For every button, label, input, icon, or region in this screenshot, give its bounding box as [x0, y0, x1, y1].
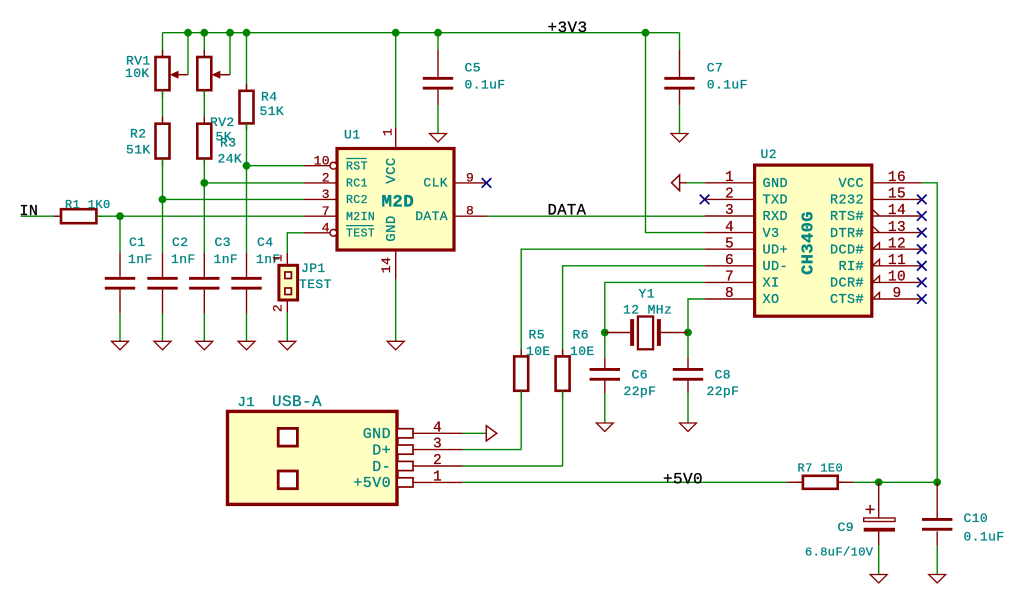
pin name U2 DCD#: [830, 243, 864, 258]
svg-text:D-: D-: [372, 459, 391, 476]
pin number J1 1: [433, 469, 442, 485]
junction RV2 wiper on rail: [226, 29, 234, 37]
pin name U2 DTR#: [830, 227, 864, 242]
svg-text:CLK: CLK: [423, 176, 448, 191]
pin lead C5 bottom: [437, 90, 439, 106]
no-connect U2 pin 12: [917, 244, 927, 254]
no-connect U1 CLK: [482, 178, 492, 188]
label U1 reference: [344, 128, 360, 143]
label C9 value: [805, 546, 874, 560]
svg-text:C5: C5: [465, 61, 481, 76]
svg-text:C8: C8: [715, 367, 731, 382]
wire R3 bottom to C3 column: [203, 159, 205, 254]
svg-text:14: 14: [888, 203, 906, 219]
wire RV2 wiper to rail: [229, 33, 231, 75]
wire C2 to ground: [162, 313, 164, 341]
svg-text:R7 1E0: R7 1E0: [798, 462, 844, 476]
svg-text:M2D: M2D: [382, 192, 415, 212]
svg-text:C6: C6: [632, 367, 648, 382]
pin number J1 2: [433, 453, 442, 469]
pin lead C1 bottom: [119, 290, 121, 313]
label R6: [573, 327, 589, 342]
wire C6 to ground: [604, 393, 606, 423]
wire TEST net: [287, 233, 304, 253]
wire R4 bottom to C4 column: [246, 123, 248, 253]
op-amp U1 body: [337, 149, 454, 251]
svg-text:TEST: TEST: [299, 277, 332, 292]
svg-text:DTR#: DTR#: [830, 227, 864, 242]
no-connect U2 pin 11: [917, 261, 927, 271]
svg-text:TEST: TEST: [346, 228, 375, 241]
svg-text:IN: IN: [20, 203, 39, 220]
svg-text:1: 1: [271, 254, 286, 262]
pin number J1 4: [433, 420, 442, 436]
potentiometer RV2 body: [197, 50, 211, 97]
pin lead U2 XI: [705, 281, 755, 283]
pin number U2 1: [725, 170, 734, 186]
resistor R4: [240, 84, 254, 131]
pin lead C6 top: [604, 358, 606, 368]
svg-text:R3: R3: [220, 136, 236, 151]
pin number U2 12: [888, 236, 906, 252]
svg-text:12 MHz: 12 MHz: [623, 302, 672, 317]
wire R5 to D+: [520, 391, 522, 450]
pin name U2 UD-: [763, 260, 789, 275]
pin number U1 1: [381, 128, 396, 136]
pin lead U2 GND: [705, 182, 755, 184]
output-low flag U2 DCR#: [873, 276, 880, 283]
label net +3V3: [548, 19, 588, 37]
pin lead U2 DCD#: [872, 248, 922, 250]
label C7 value: [707, 78, 748, 93]
pin lead C7 bottom: [679, 90, 681, 106]
pin number J1 3: [433, 437, 442, 453]
svg-text:VCC: VCC: [384, 157, 400, 183]
pin lead C10 bottom: [936, 531, 938, 545]
pin lead C2 top: [162, 253, 164, 277]
ground below C5: [430, 134, 447, 143]
pin lead C4 top: [246, 253, 248, 277]
pin name U1 M2IN: [346, 211, 375, 224]
pin number U1 3: [322, 187, 330, 202]
pin number U2 7: [725, 270, 734, 286]
junction crystal right: [684, 329, 692, 337]
label U1 value M2D: [382, 192, 415, 212]
wire rail to R4 top: [246, 33, 248, 91]
potentiometer RV1 body: [156, 50, 170, 97]
label R1 value: [65, 198, 111, 212]
wire C8 to ground: [687, 393, 689, 423]
wire C1 column: [119, 216, 121, 253]
open arrow J1 GND: [486, 426, 497, 441]
no-connect U2 pin 10: [917, 278, 927, 288]
pin name U2 VCC: [838, 177, 864, 192]
pin name U1 DATA: [415, 209, 448, 224]
label C6: [632, 367, 648, 382]
label R7 value: [798, 462, 844, 476]
svg-text:8: 8: [725, 286, 734, 302]
svg-text:6.8uF/10V: 6.8uF/10V: [805, 546, 874, 560]
pin lead C3 bottom: [203, 290, 205, 313]
pin number U2 2: [725, 187, 734, 203]
pin lead U2 R232: [872, 198, 922, 200]
pin number U2 4: [725, 220, 734, 236]
svg-text:D+: D+: [372, 442, 391, 459]
svg-text:22pF: 22pF: [707, 384, 740, 399]
ground below C2: [154, 341, 171, 350]
ground below C10: [929, 575, 946, 584]
label C2 value 1nF: [171, 252, 196, 267]
capacitor C5: [423, 77, 453, 90]
resistor R7: [796, 476, 845, 489]
wire J1 GND stub: [463, 432, 487, 434]
ground below C1: [112, 341, 129, 350]
pin lead U2 XO: [705, 298, 755, 300]
svg-text:2: 2: [322, 171, 330, 186]
pin lead U2 CTS#: [872, 298, 922, 300]
label C1 value 1nF: [128, 252, 153, 267]
wire DATA net: [487, 215, 705, 217]
svg-text:R1 1K0: R1 1K0: [65, 198, 111, 212]
label R2: [130, 127, 146, 142]
label C3: [215, 235, 231, 250]
pin name J1 +5V0: [353, 475, 391, 492]
output-low flag U2 DCD#: [873, 243, 880, 250]
svg-text:RXD: RXD: [763, 210, 789, 225]
pin lead C8 top: [687, 358, 689, 368]
wire U1 GND to ground: [395, 280, 397, 342]
svg-text:GND: GND: [363, 426, 391, 443]
label R4 value 51K: [260, 104, 285, 119]
connector J1 body: [228, 411, 398, 504]
svg-text:6: 6: [725, 253, 734, 269]
label J1 value USB-A: [272, 393, 322, 411]
pin name U2 RI#: [838, 260, 864, 275]
wire JP1 pin2 to ground: [286, 312, 288, 341]
pin number U1 10: [314, 154, 330, 169]
pin pad J1 GND: [397, 429, 462, 438]
svg-text:RC1: RC1: [346, 178, 368, 191]
wire J1 D- to R6: [463, 465, 563, 467]
svg-text:10K: 10K: [125, 66, 150, 81]
pin name U2 XI: [763, 277, 780, 292]
label RV1: [126, 54, 151, 69]
pin number U2 6: [725, 253, 734, 269]
wire +5V0 net: [463, 481, 788, 483]
svg-text:C7: C7: [707, 61, 723, 76]
svg-text:22pF: 22pF: [624, 384, 657, 399]
resistor R5: [514, 349, 528, 397]
svg-text:R5: R5: [529, 327, 545, 342]
svg-text:10E: 10E: [526, 344, 551, 359]
capacitor C8: [673, 368, 703, 381]
svg-text:11: 11: [888, 253, 906, 269]
wire J1 D+ to R5: [463, 449, 522, 451]
svg-text:CTS#: CTS#: [830, 293, 864, 308]
wire RC1 net: [204, 182, 304, 184]
ground below C7: [671, 134, 688, 143]
capacitor C2: [147, 277, 177, 290]
svg-text:C10: C10: [964, 511, 989, 526]
junction RST tap: [243, 162, 251, 170]
pin pad J1 D+: [397, 445, 462, 454]
label Y1 value 12 MHz: [623, 302, 672, 317]
pin number U2 10: [888, 270, 906, 286]
wire C1 to ground: [119, 313, 121, 341]
svg-text:10: 10: [314, 154, 330, 169]
svg-text:+5V0: +5V0: [353, 475, 391, 492]
svg-text:C4: C4: [257, 235, 273, 250]
pin lead U2 DCR#: [872, 281, 922, 283]
output-low flag U2 RI#: [873, 259, 880, 266]
svg-text:2: 2: [433, 453, 442, 469]
svg-text:C2: C2: [172, 235, 188, 250]
svg-text:XO: XO: [763, 293, 780, 308]
junction R4 top on rail: [243, 29, 251, 37]
wire rail to C5: [437, 33, 439, 50]
junction RC1 tap: [200, 179, 208, 187]
wire RV2 bottom to R3 top: [203, 90, 205, 124]
resistor R3: [197, 117, 211, 166]
wire C9 to ground: [878, 545, 880, 575]
junction V3 branch on rail: [642, 29, 650, 37]
svg-text:0.1uF: 0.1uF: [707, 78, 748, 93]
svg-text:2: 2: [271, 304, 286, 312]
wire RV1 wiper to rail: [187, 33, 189, 75]
svg-text:3: 3: [433, 437, 442, 453]
pin lead C4 bottom: [246, 290, 248, 313]
pin name J1 D+: [372, 442, 391, 459]
pin number U1 8: [466, 204, 474, 219]
junction C10 tap: [933, 478, 941, 486]
pin number U2 11: [888, 253, 906, 269]
pin number JP1 1: [271, 254, 286, 262]
svg-text:RI#: RI#: [838, 260, 864, 275]
capacitor C1: [105, 277, 135, 290]
svg-text:2: 2: [725, 187, 734, 203]
pin lead U1 RC2: [304, 198, 337, 200]
svg-text:JP1: JP1: [301, 261, 326, 276]
pin name U2 V3: [763, 227, 780, 242]
pin number U1 2: [322, 171, 330, 186]
pin number U2 13: [888, 220, 906, 236]
label R5 value 10E: [526, 344, 551, 359]
ground below JP1: [279, 341, 296, 350]
label R2 value 51K: [126, 143, 151, 158]
label C8: [715, 367, 731, 382]
pin name J1 D-: [372, 459, 391, 476]
pin number U2 15: [888, 187, 906, 203]
svg-text:RST: RST: [346, 161, 368, 174]
pin number U1 4: [322, 221, 330, 236]
svg-text:DCD#: DCD#: [830, 243, 864, 258]
svg-text:14: 14: [379, 257, 394, 273]
capacitor C7: [664, 77, 694, 90]
svg-text:0.1uF: 0.1uF: [465, 78, 506, 93]
pin lead U2 UD-: [705, 265, 755, 267]
open arrow into U2 GND: [672, 175, 688, 191]
pin number U1 9: [466, 170, 474, 185]
wire IN to R1: [21, 215, 61, 217]
pin lead U2 RI#: [872, 265, 922, 267]
svg-text:GND: GND: [384, 215, 400, 241]
pin lead U1 GND pin14: [395, 250, 397, 280]
svg-text:DATA: DATA: [415, 209, 448, 224]
svg-text:GND: GND: [763, 177, 789, 192]
svg-text:16: 16: [888, 170, 906, 186]
pin lead R7 right: [838, 481, 853, 483]
pin name U2 DCR#: [830, 277, 864, 292]
label net IN: [20, 203, 39, 220]
label R3 value 24K: [218, 151, 243, 166]
pin lead U2 UD+: [705, 248, 755, 250]
junction RV1 wiper on rail: [184, 29, 192, 37]
label Y1: [639, 287, 655, 302]
capacitor C6: [590, 368, 620, 381]
label C8 value 22pF: [707, 384, 740, 399]
potentiometer RV1 wiper arrow: [170, 71, 188, 79]
svg-text:8: 8: [466, 204, 474, 219]
pin lead C2 bottom: [162, 290, 164, 313]
capacitor C10: [922, 518, 952, 531]
pin lead C9 top: [878, 482, 880, 518]
potentiometer RV2 wiper arrow: [212, 71, 230, 79]
label net DATA: [548, 202, 587, 220]
svg-text:51K: 51K: [260, 104, 285, 119]
svg-text:TXD: TXD: [763, 194, 789, 209]
pin number U2 3: [725, 203, 734, 219]
wire RST net: [247, 165, 305, 167]
junction crystal left: [601, 329, 609, 337]
pin name U2 XO: [763, 293, 780, 308]
label C2: [172, 235, 188, 250]
wire crystal left to C6: [604, 333, 606, 359]
svg-text:UD-: UD-: [763, 260, 789, 275]
input-low flag U2 DTR#: [873, 226, 880, 233]
capacitor C3: [189, 277, 219, 290]
wire R6 to D-: [562, 391, 564, 466]
pin lead U2 V3: [705, 232, 755, 234]
pin pad J1 D-: [397, 461, 462, 470]
wire R1 to M2IN pin: [96, 215, 304, 217]
svg-text:51K: 51K: [126, 143, 151, 158]
svg-text:DCR#: DCR#: [830, 277, 864, 292]
pin lead U1 RC1: [304, 182, 337, 184]
junction C9 tap: [875, 478, 883, 486]
svg-text:13: 13: [888, 220, 906, 236]
svg-text:R6: R6: [573, 327, 589, 342]
svg-text:RTS#: RTS#: [830, 210, 864, 225]
pin lead C5 top: [437, 50, 439, 77]
pin number JP1 2: [271, 304, 286, 312]
resistor R2: [156, 117, 170, 166]
svg-text:RV2: RV2: [210, 115, 235, 130]
label C9: [838, 520, 854, 535]
wire rail to C7: [679, 33, 681, 50]
svg-text:1: 1: [433, 469, 442, 485]
label R5: [529, 327, 545, 342]
wire RC2 net: [163, 198, 305, 200]
svg-text:24K: 24K: [218, 151, 243, 166]
pin lead U1 DATA: [454, 215, 487, 217]
pin name U1 CLK: [423, 176, 448, 191]
svg-text:0.1uF: 0.1uF: [964, 530, 1005, 545]
svg-text:V3: V3: [763, 227, 780, 242]
svg-text:12: 12: [888, 236, 906, 252]
capacitor C4: [231, 277, 261, 290]
label R4: [261, 90, 277, 105]
wire rail to RV2 top: [203, 33, 205, 57]
label C5 value: [465, 78, 506, 93]
svg-text:9: 9: [892, 286, 901, 302]
wire C4 to ground: [246, 313, 248, 341]
no-connect U2 pin 15: [917, 195, 927, 205]
no-connect U2 pin 14: [917, 211, 927, 221]
pin lead C7 top: [679, 50, 681, 77]
junction C5 on rail: [434, 29, 442, 37]
pin name U2 R232: [830, 194, 864, 209]
pin number U1 14: [379, 257, 394, 273]
pin lead U2 RTS#: [872, 215, 922, 217]
pin pad J1 +5V0: [397, 478, 462, 487]
no-connect U2 TXD: [700, 195, 710, 205]
label U2 value CH340G: [800, 211, 819, 275]
pin lead U1 M2IN: [304, 215, 337, 217]
svg-text:+3V3: +3V3: [548, 19, 588, 37]
label C1: [129, 235, 145, 250]
label C4: [257, 235, 273, 250]
label JP1: [301, 261, 326, 276]
label C10 value: [964, 530, 1005, 545]
pin name U2 UD+: [763, 243, 789, 258]
junction RV2 top on rail: [200, 29, 208, 37]
no-connect U2 pin 9: [917, 294, 927, 304]
pin lead C6 bottom: [604, 381, 606, 393]
wire UD+ net: [521, 249, 704, 356]
svg-text:7: 7: [725, 270, 734, 286]
svg-text:7: 7: [322, 204, 330, 219]
svg-text:U1: U1: [344, 128, 360, 143]
crystal Y1: [605, 317, 688, 350]
pin lead R7 left: [788, 481, 803, 483]
svg-text:UD+: UD+: [763, 243, 789, 258]
pin lead JP1 pin 2: [286, 300, 288, 312]
pin name U1 RST: [346, 161, 368, 174]
resistor R1: [54, 209, 103, 223]
wire arrow to U2 GND: [687, 182, 705, 184]
pin lead U1 CLK: [454, 182, 487, 184]
wire UD- net: [563, 266, 705, 357]
svg-text:CH340G: CH340G: [800, 211, 819, 275]
ground below U1: [387, 341, 404, 350]
svg-text:DATA: DATA: [548, 202, 587, 220]
label C6 value 22pF: [624, 384, 657, 399]
svg-text:C9: C9: [838, 520, 854, 535]
junction C1 tap: [116, 212, 124, 220]
svg-text:M2IN: M2IN: [346, 211, 375, 224]
resistor R6: [556, 349, 570, 397]
svg-text:XI: XI: [763, 277, 780, 292]
svg-text:VCC: VCC: [838, 177, 864, 192]
wire rail to RV1 top: [162, 33, 164, 57]
svg-text:10E: 10E: [570, 344, 595, 359]
label RV2 value 5K: [216, 130, 232, 145]
wire RV1 bottom to R2 top: [162, 90, 164, 124]
pin lead C8 bottom: [687, 381, 689, 393]
wire crystal right to C8: [687, 333, 689, 359]
pin lead U2 TXD: [705, 198, 755, 200]
no-connect U2 pin 13: [917, 228, 927, 238]
